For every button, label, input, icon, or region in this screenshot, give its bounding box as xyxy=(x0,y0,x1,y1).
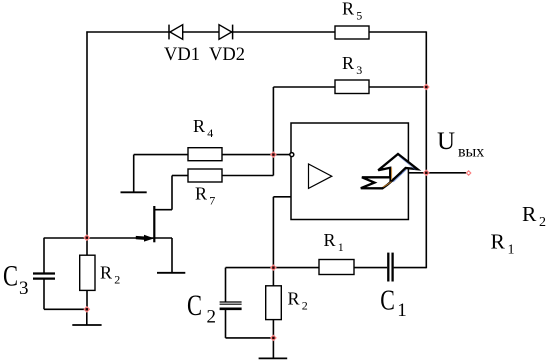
svg-text:вых: вых xyxy=(458,144,484,161)
svg-text:3: 3 xyxy=(356,63,362,77)
svg-text:R: R xyxy=(491,229,506,253)
node junction marks (red) xyxy=(83,84,429,342)
wire op-amp input1 xyxy=(273,154,290,156)
svg-text:R: R xyxy=(342,0,354,18)
svg-text:1: 1 xyxy=(338,240,344,254)
wire ground4 stem xyxy=(272,338,274,359)
ground (transistor source) xyxy=(157,272,185,274)
wire C2 bottom row xyxy=(226,337,274,339)
svg-text:R: R xyxy=(288,289,300,309)
svg-text:R: R xyxy=(193,116,205,136)
wire op-amp input2 xyxy=(273,196,291,198)
wire gate + source row y=238 xyxy=(44,237,172,239)
svg-text:R: R xyxy=(100,262,112,282)
diode VD2 xyxy=(219,25,233,40)
wire R2-left top connector xyxy=(86,238,88,256)
transistor Q1 channel bar xyxy=(153,206,155,242)
svg-text:7: 7 xyxy=(209,194,215,208)
op-amp U1 triangle xyxy=(309,164,332,188)
svg-text:3: 3 xyxy=(19,278,29,299)
wire right vertical x=426.3 xyxy=(425,31,427,268)
resistor R2 (left) xyxy=(80,255,95,290)
svg-text:4: 4 xyxy=(207,126,213,140)
wire left vertical x=87 xyxy=(86,31,88,237)
svg-text:1: 1 xyxy=(508,242,515,257)
transistor Q1 gate arrow xyxy=(144,235,154,242)
wire C2 top connector xyxy=(225,268,227,302)
svg-text:VD2: VD2 xyxy=(209,45,245,65)
op-amp U1 box xyxy=(291,123,408,220)
op-amp U1 input circle xyxy=(290,153,294,157)
ground (R2 bottom) xyxy=(259,357,288,359)
node C3 bottom junction xyxy=(83,306,90,313)
output terminal xyxy=(466,170,472,176)
wire drain vertical xyxy=(171,176,173,210)
node R1 left junction xyxy=(270,264,277,271)
wire R4 right xyxy=(222,154,273,156)
resistor R2 (bottom) xyxy=(266,286,282,320)
svg-text:C: C xyxy=(3,260,18,293)
svg-text:U: U xyxy=(437,128,455,155)
svg-text:2: 2 xyxy=(207,307,217,328)
capacitor C3 xyxy=(33,274,55,279)
diode VD1 xyxy=(169,25,183,40)
resistor R7 xyxy=(188,169,222,182)
wire output xyxy=(408,172,466,174)
resistor R4 xyxy=(188,148,222,161)
svg-text:2: 2 xyxy=(302,299,308,313)
capacitor C2 xyxy=(220,302,242,309)
node output junction xyxy=(423,169,430,176)
capacitor C1 xyxy=(388,253,392,282)
wire R1 row right of C1 xyxy=(394,267,427,269)
svg-text:R: R xyxy=(342,53,354,73)
node op-amp input1 junction xyxy=(270,151,277,158)
wire R1 row left xyxy=(226,267,320,269)
wire drain horizontal xyxy=(154,209,172,211)
svg-text:5: 5 xyxy=(356,8,362,22)
svg-text:2: 2 xyxy=(114,272,120,286)
svg-text:R: R xyxy=(324,230,336,250)
wire vertical x=273.4 from R3 to R7 row xyxy=(272,87,274,176)
output bent arrow symbol xyxy=(361,154,418,188)
wire C3 bottom row xyxy=(44,308,87,310)
wire R2-left bottom connector xyxy=(86,290,88,309)
wire R2-bottom top connector xyxy=(272,268,274,286)
node gate/C3 top junction xyxy=(83,234,90,241)
resistor R1 xyxy=(319,260,354,275)
svg-text:VD1: VD1 xyxy=(164,45,200,65)
node C2 bottom junction xyxy=(270,335,277,342)
svg-text:R: R xyxy=(195,184,207,204)
svg-text:1: 1 xyxy=(397,300,407,321)
resistor R3 xyxy=(335,80,369,94)
resistor R5 xyxy=(335,26,369,39)
svg-text:C: C xyxy=(380,285,395,316)
wire C2 bottom connector xyxy=(225,310,227,338)
wire C3 top connector xyxy=(43,238,45,273)
svg-text:2: 2 xyxy=(539,215,546,230)
svg-text:R: R xyxy=(522,202,537,226)
wire R7 left xyxy=(172,175,188,177)
wire R4-left down to ground xyxy=(133,155,135,193)
wire R1 row middle xyxy=(354,267,387,269)
ground (C3/R2 bottom) xyxy=(72,324,101,326)
wire R3 row y=86.5 xyxy=(273,86,335,88)
wire top horizontal y=32 xyxy=(86,31,426,33)
wire source down xyxy=(171,238,173,273)
wire R2-bottom bottom connector xyxy=(272,320,274,338)
svg-text:C: C xyxy=(187,289,202,322)
wire R4 left xyxy=(134,154,188,156)
wire R7 right xyxy=(222,175,273,177)
node R3 right junction xyxy=(423,84,430,91)
wire ground3 stem xyxy=(86,309,88,325)
wire C3 bottom connector xyxy=(43,280,45,310)
wire input2 vertical down xyxy=(272,197,274,268)
ground (R4 left) xyxy=(121,191,147,193)
